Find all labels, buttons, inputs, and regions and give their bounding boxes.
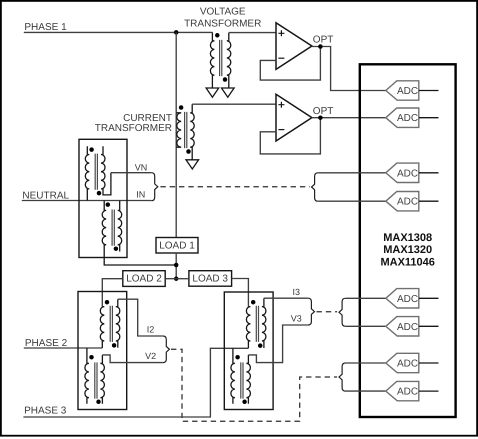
wire U1 output to ADC1 bbox=[312, 47, 386, 91]
dashed I3/V3 to ADC brace bbox=[317, 311, 338, 313]
ground T1 primary bbox=[206, 88, 219, 97]
wire ADC5 input (I3) bbox=[346, 297, 386, 299]
ADC IC box (MAX1308/MAX1320/MAX11046) bbox=[360, 64, 456, 417]
label NEUTRAL bbox=[22, 190, 69, 201]
wire ADC8 input (V2) bbox=[346, 390, 386, 392]
dot T6 primary polarity bbox=[89, 355, 94, 360]
wire LOAD2 to tee bbox=[165, 278, 176, 280]
dot T2 primary polarity bbox=[179, 105, 184, 110]
dot T8 primary polarity bbox=[235, 355, 240, 360]
svg-text:VN: VN bbox=[135, 162, 148, 172]
op-amp U2 bbox=[276, 94, 312, 141]
dot T3 secondary polarity bbox=[97, 191, 102, 196]
label MAX1320 bbox=[383, 244, 432, 256]
wire T2 secondary to U2 +input bbox=[192, 103, 276, 105]
wire V3 jog from T8 secondary bbox=[248, 325, 308, 363]
svg-text:ADC: ADC bbox=[397, 359, 418, 370]
label PHASE 2 bbox=[25, 338, 68, 349]
wire ADC 5 output stub bbox=[419, 297, 439, 299]
label MAX11046 bbox=[380, 256, 434, 268]
wire ADC3 input (VN) bbox=[318, 172, 386, 174]
transformer T7 (phase3 current) windings bbox=[246, 298, 266, 348]
label LOAD 1 bbox=[159, 241, 195, 252]
dot T3 primary polarity bbox=[89, 147, 94, 152]
dot T5 secondary polarity bbox=[112, 343, 117, 348]
junction phase1/main drop bbox=[174, 30, 179, 35]
label current transformer line2 bbox=[95, 123, 172, 134]
transformer T1 core bbox=[220, 40, 222, 76]
svg-text:PHASE 3: PHASE 3 bbox=[24, 405, 67, 416]
brace ADC5/ADC6 inputs bbox=[339, 298, 346, 326]
svg-text:I3: I3 bbox=[293, 287, 301, 297]
wire neutral / IN line bbox=[22, 200, 151, 202]
svg-text:ADC: ADC bbox=[397, 322, 418, 333]
svg-text:OPT: OPT bbox=[313, 106, 334, 117]
junction LOAD2/LOAD3 tee bbox=[174, 276, 179, 281]
svg-text:MAX1308: MAX1308 bbox=[383, 232, 432, 244]
wire ADC7 input (I2) bbox=[346, 362, 386, 364]
ground T1 secondary bbox=[222, 88, 235, 97]
brace I3/V3 bbox=[308, 298, 315, 325]
svg-text:ADC: ADC bbox=[397, 168, 418, 179]
label LOAD 2 bbox=[126, 274, 162, 285]
LOAD 1 box bbox=[156, 238, 198, 254]
dashed I2/V2 route to ADC brace bbox=[171, 349, 337, 421]
wire U2 output to ADC2 bbox=[312, 117, 386, 119]
svg-text:LOAD 1: LOAD 1 bbox=[159, 241, 195, 252]
svg-text:IN: IN bbox=[136, 190, 145, 200]
dot T1 secondary polarity bbox=[223, 77, 228, 82]
wire phase3 line and riser bbox=[23, 348, 248, 417]
svg-text:V2: V2 bbox=[145, 351, 156, 361]
ADC 3 symbol bbox=[386, 163, 419, 182]
svg-text:ADC: ADC bbox=[397, 197, 418, 208]
transformer T2 core bbox=[185, 112, 187, 148]
dot T4 primary polarity bbox=[106, 202, 111, 207]
dot T5 primary polarity bbox=[105, 300, 110, 305]
wire tee to LOAD3 bbox=[176, 278, 189, 280]
label current transformer line1 bbox=[123, 113, 172, 124]
LOAD 3 box bbox=[189, 271, 232, 287]
transformer T6 (phase2 voltage) windings bbox=[85, 348, 105, 404]
label voltage transformer line2 bbox=[184, 18, 261, 29]
label IN bbox=[136, 190, 145, 200]
svg-text:VOLTAGE: VOLTAGE bbox=[200, 7, 246, 18]
transformer T2 primary winding bbox=[176, 113, 181, 147]
op-amp U1 bbox=[276, 23, 312, 70]
dot T6 secondary polarity bbox=[96, 400, 101, 405]
svg-text:PHASE 1: PHASE 1 bbox=[24, 22, 67, 33]
dot U1 output junction bbox=[318, 44, 323, 49]
dot T8 secondary polarity bbox=[242, 400, 247, 405]
label I2 bbox=[147, 325, 155, 335]
svg-text:LOAD 3: LOAD 3 bbox=[192, 274, 228, 285]
svg-text:NEUTRAL: NEUTRAL bbox=[22, 190, 69, 201]
label PHASE 3 bbox=[24, 405, 67, 416]
brace I2/V2 bbox=[163, 336, 170, 363]
dot T2 secondary polarity bbox=[186, 149, 191, 154]
ADC 5 symbol bbox=[386, 289, 419, 308]
brace ADC3/ADC4 inputs bbox=[312, 173, 319, 201]
ADC 1 symbol bbox=[386, 81, 419, 100]
wire LOAD1 to load tee bbox=[175, 253, 177, 279]
label V2 bbox=[145, 351, 156, 361]
svg-text:MAX1320: MAX1320 bbox=[383, 244, 432, 256]
transformer T5 (phase2 current) windings bbox=[100, 299, 120, 348]
label I3 bbox=[293, 287, 301, 297]
dot U2 output junction bbox=[318, 115, 323, 120]
wire ADC 7 output stub bbox=[419, 362, 439, 364]
ADC 6 symbol bbox=[386, 317, 419, 336]
wire ADC 2 output stub bbox=[419, 117, 439, 119]
wire U1 feedback loop bbox=[260, 47, 320, 81]
svg-text:I2: I2 bbox=[147, 325, 155, 335]
dot T1 primary polarity bbox=[215, 33, 220, 38]
wire VN line bbox=[111, 172, 151, 174]
phase2 measurement block box bbox=[78, 292, 127, 410]
wire T1 secondary to U1 +input bbox=[229, 32, 276, 34]
LOAD 2 box bbox=[123, 271, 165, 287]
ADC 8 symbol bbox=[386, 381, 419, 400]
wire ADC4 input (IN) bbox=[318, 200, 386, 202]
label voltage transformer line1 bbox=[200, 7, 246, 18]
svg-text:MAX11046: MAX11046 bbox=[380, 256, 434, 268]
svg-text:TRANSFORMER: TRANSFORMER bbox=[95, 123, 172, 134]
wire ADC 3 output stub bbox=[419, 172, 439, 174]
label PHASE 1 bbox=[24, 22, 67, 33]
svg-text:LOAD 2: LOAD 2 bbox=[126, 274, 162, 285]
ADC 7 symbol bbox=[386, 353, 419, 372]
ADC 4 symbol bbox=[386, 192, 419, 211]
transformer T1 primary bbox=[210, 32, 214, 88]
label VN bbox=[135, 162, 148, 172]
svg-text:ADC: ADC bbox=[397, 113, 418, 124]
ADC 2 symbol bbox=[386, 108, 419, 127]
transformer T1 secondary bbox=[227, 33, 231, 88]
svg-text:ADC: ADC bbox=[397, 294, 418, 305]
wire LOAD2 feed down to phase2 CT bbox=[102, 279, 123, 307]
svg-text:ADC: ADC bbox=[397, 387, 418, 398]
svg-text:TRANSFORMER: TRANSFORMER bbox=[184, 18, 261, 29]
wire ADC6 input (V3) bbox=[346, 325, 386, 327]
dashed VN/IN to ADC brace bbox=[160, 186, 309, 188]
wire U2 feedback loop bbox=[260, 118, 320, 154]
junction neutral-block return bbox=[174, 263, 179, 268]
wire I3 line bbox=[264, 297, 308, 299]
neutral measurement block box bbox=[79, 139, 127, 257]
wire ADC 8 output stub bbox=[419, 390, 439, 392]
wire I2 jog from T5 secondary bbox=[118, 299, 163, 336]
svg-text:OPT: OPT bbox=[313, 35, 334, 46]
transformer T3 (neutral voltage) windings bbox=[85, 146, 111, 200]
brace VN/IN bbox=[151, 173, 158, 201]
wire phase2 line bbox=[24, 347, 103, 349]
dot T7 secondary polarity bbox=[258, 343, 263, 348]
svg-text:V3: V3 bbox=[291, 313, 302, 323]
transformer T4 (neutral current) windings bbox=[102, 201, 176, 266]
label OPT U1 bbox=[313, 35, 334, 46]
wire LOAD3 feed down to phase3 CT bbox=[232, 279, 249, 307]
wire ADC 4 output stub bbox=[419, 200, 439, 202]
phase3 measurement block box bbox=[224, 292, 273, 410]
wire ADC 6 output stub bbox=[419, 325, 439, 327]
brace ADC7/ADC8 inputs bbox=[339, 363, 346, 391]
dot T4 secondary polarity bbox=[114, 246, 119, 251]
label OPT U2 bbox=[313, 106, 334, 117]
label MAX1308 bbox=[383, 232, 432, 244]
label LOAD 3 bbox=[192, 274, 228, 285]
label V3 bbox=[291, 313, 302, 323]
transformer T8 (phase3 voltage) windings bbox=[231, 348, 251, 404]
dot T7 primary polarity bbox=[251, 300, 256, 305]
wire phase1 line bbox=[24, 31, 213, 33]
wire V2 jog from T6 secondary bbox=[102, 355, 162, 363]
transformer T2 secondary bbox=[190, 104, 194, 160]
wire main vertical drop to LOAD 1 bbox=[175, 32, 177, 237]
ground T2 secondary bbox=[186, 160, 199, 169]
svg-text:ADC: ADC bbox=[397, 86, 418, 97]
wire ADC 1 output stub bbox=[419, 90, 439, 92]
